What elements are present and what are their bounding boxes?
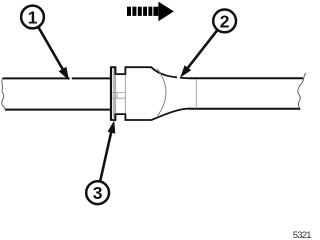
svg-text:5321: 5321: [293, 230, 311, 240]
svg-text:1: 1: [28, 8, 38, 28]
svg-text:2: 2: [220, 11, 230, 31]
svg-text:3: 3: [93, 183, 103, 203]
